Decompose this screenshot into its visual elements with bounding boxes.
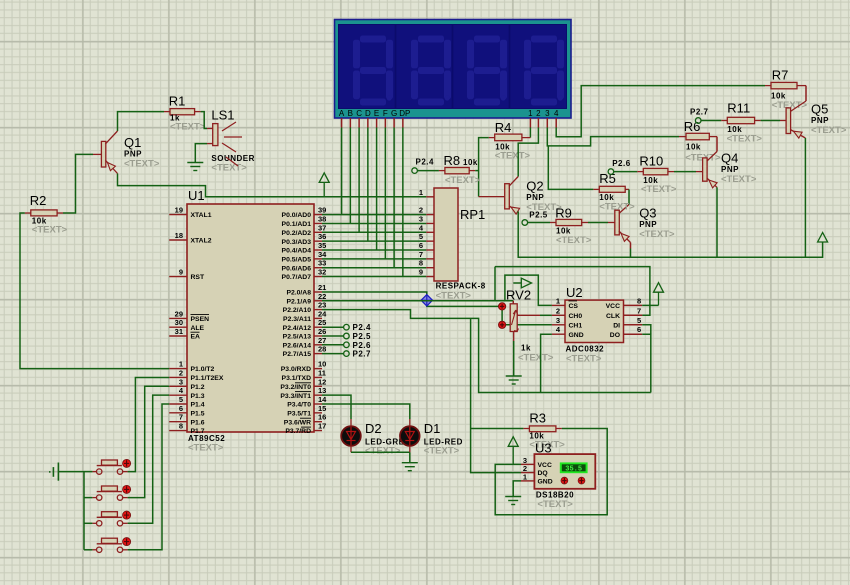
terminal circle P2.6 bbox=[608, 169, 614, 175]
wire digit1 pin to R4 bbox=[529, 128, 531, 138]
svg-text:DI: DI bbox=[613, 322, 620, 329]
wire digit4 pin to R7 bbox=[556, 86, 765, 137]
svg-text:<TEXT>: <TEXT> bbox=[599, 202, 635, 213]
svg-text:7: 7 bbox=[179, 413, 183, 422]
svg-text:XTAL2: XTAL2 bbox=[191, 238, 212, 245]
svg-text:10k: 10k bbox=[686, 143, 701, 152]
resistor R10 bbox=[639, 154, 676, 196]
svg-text:39: 39 bbox=[318, 206, 326, 215]
ground under RV2 bbox=[506, 376, 522, 384]
terminal circle P2.6 bbox=[344, 342, 350, 348]
4-digit 7-segment display DISP1 bbox=[335, 20, 572, 119]
svg-text:<TEXT>: <TEXT> bbox=[721, 174, 757, 185]
wire R1 to LS1 bbox=[195, 111, 201, 113]
wire segment D bbox=[367, 128, 369, 242]
terminal P2.7 bbox=[322, 353, 344, 355]
svg-text:P3.1/TXD: P3.1/TXD bbox=[282, 375, 312, 382]
display pins bbox=[341, 118, 343, 128]
svg-text:<TEXT>: <TEXT> bbox=[436, 291, 472, 302]
node marker (blue diamond) bbox=[421, 295, 432, 306]
svg-text:P0.6/AD6: P0.6/AD6 bbox=[282, 265, 312, 272]
resistor R6 bbox=[684, 119, 721, 164]
wire Q1 emitter to RP1 pin1 rail bbox=[118, 174, 427, 197]
svg-text:R11: R11 bbox=[727, 101, 750, 116]
wire segment E bbox=[376, 128, 378, 251]
temperature sensor U3 DS18B20 bbox=[523, 441, 595, 511]
svg-text:15: 15 bbox=[318, 404, 326, 413]
svg-text:R10: R10 bbox=[639, 154, 663, 169]
svg-text:R3: R3 bbox=[529, 411, 546, 426]
wire U1 P1.1 to button SW1 bbox=[128, 377, 170, 471]
resistor R8 bbox=[444, 153, 481, 186]
svg-text:R9: R9 bbox=[555, 206, 572, 221]
svg-text:25: 25 bbox=[318, 318, 326, 327]
svg-text:LS1: LS1 bbox=[211, 108, 234, 123]
svg-text:21: 21 bbox=[318, 283, 326, 292]
wire Q1 base to R2 bbox=[63, 154, 93, 213]
resistor R11 bbox=[727, 101, 763, 145]
svg-text:G: G bbox=[391, 109, 397, 118]
wire P3.4 to D1 bbox=[322, 404, 410, 419]
junction dot lower bbox=[499, 321, 506, 328]
ground under U3 bbox=[505, 497, 521, 505]
svg-text:5: 5 bbox=[637, 316, 641, 325]
svg-text:37: 37 bbox=[318, 223, 326, 232]
microcontroller U1 AT89C52 bbox=[169, 188, 327, 454]
svg-text:R8: R8 bbox=[444, 153, 461, 168]
svg-text:<TEXT>: <TEXT> bbox=[811, 125, 847, 136]
wire segment C bbox=[358, 128, 360, 233]
wire R9 to Q3 base bbox=[582, 222, 588, 224]
svg-text:<TEXT>: <TEXT> bbox=[495, 151, 531, 162]
svg-text:3: 3 bbox=[419, 214, 423, 223]
wire P2.1/A9 to RV2 top bbox=[322, 300, 513, 302]
power arrow on RP1 line bbox=[319, 173, 329, 197]
svg-text:P2.1/A9: P2.1/A9 bbox=[286, 298, 311, 305]
svg-text:P1.3: P1.3 bbox=[191, 393, 205, 400]
svg-text:<TEXT>: <TEXT> bbox=[124, 159, 160, 170]
push button SW4 bbox=[92, 538, 130, 553]
svg-text:<TEXT>: <TEXT> bbox=[445, 175, 481, 186]
wire RV2 bottom to ground bbox=[513, 332, 515, 342]
svg-text:10: 10 bbox=[318, 360, 326, 369]
svg-text:P1.2: P1.2 bbox=[191, 384, 205, 391]
vertical with junctions to CH1 bbox=[501, 306, 503, 324]
sounder LS1 bbox=[211, 108, 255, 174]
svg-text:10k: 10k bbox=[463, 158, 478, 167]
svg-text:5: 5 bbox=[179, 395, 183, 404]
resistor R7 bbox=[771, 68, 808, 112]
svg-text:RV2: RV2 bbox=[506, 288, 531, 303]
svg-text:P1.0/T2: P1.0/T2 bbox=[191, 366, 215, 373]
wire button SW3 left to common bbox=[84, 522, 92, 524]
wire Q3 emitter to rail bbox=[630, 243, 632, 249]
svg-text:<TEXT>: <TEXT> bbox=[32, 225, 68, 236]
svg-text:33: 33 bbox=[318, 259, 326, 268]
display digit at x=411 bbox=[418, 36, 444, 43]
svg-text:27: 27 bbox=[318, 336, 326, 345]
wire segment G bbox=[393, 128, 395, 268]
transistor Q5 PNP bbox=[786, 101, 847, 138]
svg-text:3: 3 bbox=[556, 316, 560, 325]
svg-text:6: 6 bbox=[179, 404, 183, 413]
svg-text:GND: GND bbox=[538, 479, 553, 486]
svg-text:A: A bbox=[339, 109, 345, 118]
transistor Q4 PNP bbox=[703, 151, 757, 188]
svg-text:2: 2 bbox=[419, 206, 423, 215]
svg-text:P2.6: P2.6 bbox=[353, 341, 372, 350]
wire R6 to Q4 collector bbox=[709, 136, 717, 138]
svg-text:2: 2 bbox=[536, 109, 541, 118]
svg-text:26: 26 bbox=[318, 327, 326, 336]
svg-text:R1: R1 bbox=[169, 94, 186, 109]
svg-text:8: 8 bbox=[179, 422, 183, 431]
svg-text:P1.7: P1.7 bbox=[191, 428, 205, 435]
wire R11 to Q5 base bbox=[755, 120, 761, 122]
svg-text:CLK: CLK bbox=[606, 313, 620, 320]
power arrow U2 VCC bbox=[654, 283, 664, 306]
terminal circle P2.7 bbox=[344, 351, 350, 357]
wire segment B bbox=[349, 128, 351, 224]
svg-text:Q1: Q1 bbox=[124, 135, 141, 150]
svg-text:P2.6: P2.6 bbox=[612, 159, 631, 168]
svg-text:1: 1 bbox=[179, 360, 183, 369]
transistor Q1 PNP bbox=[93, 131, 160, 174]
push button SW2 bbox=[92, 485, 130, 500]
svg-text:16: 16 bbox=[318, 413, 326, 422]
svg-text:ALE: ALE bbox=[191, 325, 205, 332]
resistor R4 bbox=[495, 120, 531, 162]
svg-text:8: 8 bbox=[419, 259, 423, 268]
svg-text:P1.4: P1.4 bbox=[191, 402, 205, 409]
svg-text:P2.5/A13: P2.5/A13 bbox=[283, 334, 312, 341]
svg-text:7: 7 bbox=[419, 250, 423, 259]
svg-text:D: D bbox=[365, 109, 371, 118]
svg-text:9: 9 bbox=[179, 268, 183, 277]
wire U2 DI to DO bbox=[642, 325, 651, 334]
svg-text:Q4: Q4 bbox=[721, 151, 738, 166]
svg-text:<TEXT>: <TEXT> bbox=[566, 354, 602, 365]
svg-text:P2.5: P2.5 bbox=[353, 332, 372, 341]
wire P3.3 to D2 bbox=[322, 395, 351, 419]
svg-text:<TEXT>: <TEXT> bbox=[424, 446, 460, 457]
svg-text:1: 1 bbox=[523, 472, 527, 481]
svg-text:1: 1 bbox=[419, 188, 423, 197]
resistor R3 bbox=[529, 411, 565, 451]
svg-text:P2.7/A15: P2.7/A15 bbox=[283, 351, 312, 358]
svg-text:U2: U2 bbox=[566, 285, 583, 300]
svg-text:Q3: Q3 bbox=[639, 206, 656, 221]
svg-text:VCC: VCC bbox=[538, 462, 552, 469]
svg-text:EA: EA bbox=[191, 334, 201, 341]
svg-text:P3.7/RD: P3.7/RD bbox=[285, 428, 311, 435]
svg-text:P0.7/AD7: P0.7/AD7 bbox=[282, 274, 312, 281]
wire segment F bbox=[384, 128, 386, 259]
rail to U2 CLK bbox=[495, 267, 650, 316]
resistor R1 bbox=[169, 94, 206, 133]
wire R8 to Q2 base line bbox=[469, 170, 475, 172]
svg-text:P2.4: P2.4 bbox=[353, 323, 372, 332]
wire P2.2/A10 net bbox=[322, 310, 651, 393]
wire P2.7 to R11 bbox=[701, 120, 721, 122]
svg-text:PSEN: PSEN bbox=[191, 316, 210, 323]
svg-text:28: 28 bbox=[318, 345, 326, 354]
wire button SW4 left to common bbox=[84, 549, 92, 551]
svg-text:2: 2 bbox=[179, 368, 183, 377]
svg-text:35: 35 bbox=[318, 241, 326, 250]
svg-text:23: 23 bbox=[318, 301, 326, 310]
svg-text:<TEXT>: <TEXT> bbox=[170, 122, 206, 133]
svg-text:3: 3 bbox=[179, 377, 183, 386]
display digit at x=353 bbox=[360, 36, 386, 43]
svg-text:P2.7: P2.7 bbox=[690, 108, 709, 117]
svg-text:XTAL1: XTAL1 bbox=[191, 212, 212, 219]
svg-text:12: 12 bbox=[318, 377, 326, 386]
svg-text:P1.5: P1.5 bbox=[191, 410, 205, 417]
svg-text:1k: 1k bbox=[521, 344, 531, 353]
svg-text:<TEXT>: <TEXT> bbox=[365, 446, 401, 457]
svg-text:<TEXT>: <TEXT> bbox=[556, 235, 592, 246]
svg-text:C: C bbox=[356, 109, 362, 118]
wire R4 to Q2 base bbox=[489, 137, 495, 139]
svg-text:RESPACK-8: RESPACK-8 bbox=[436, 282, 486, 291]
svg-text:RP1: RP1 bbox=[460, 207, 485, 222]
wire R3 right to VCC loop bbox=[556, 428, 562, 430]
wire LS1 to ground bbox=[207, 143, 213, 145]
terminal circle P2.4 bbox=[344, 324, 350, 330]
svg-text:P1.1/T2EX: P1.1/T2EX bbox=[191, 375, 224, 382]
wire DQ branch down to U3 bbox=[471, 318, 521, 472]
transistor Q3 PNP bbox=[615, 205, 675, 243]
resistor R2 bbox=[30, 193, 68, 236]
power arrow U3 VCC bbox=[508, 437, 518, 465]
svg-text:P1.6: P1.6 bbox=[191, 419, 205, 426]
resistor R9 bbox=[555, 206, 592, 247]
wire RV2 wiper to U2 CH0 bbox=[517, 314, 540, 316]
svg-text:Q2: Q2 bbox=[526, 179, 543, 194]
svg-text:4: 4 bbox=[554, 109, 559, 118]
terminal circle P2.7 bbox=[695, 118, 701, 124]
svg-text:CH1: CH1 bbox=[569, 322, 583, 329]
wire U1 P1.4 to button SW4 bbox=[128, 404, 170, 550]
svg-text:PNP: PNP bbox=[811, 116, 829, 125]
svg-text:P2.7: P2.7 bbox=[353, 350, 372, 359]
svg-text:PNP: PNP bbox=[526, 193, 544, 202]
svg-text:<TEXT>: <TEXT> bbox=[641, 184, 677, 195]
ground under D1 bbox=[402, 463, 418, 471]
svg-text:P3.6/WR: P3.6/WR bbox=[284, 419, 311, 426]
svg-text:R6: R6 bbox=[684, 119, 701, 134]
svg-text:P2.3/A11: P2.3/A11 bbox=[283, 316, 311, 323]
svg-text:PNP: PNP bbox=[124, 150, 142, 159]
terminal circle P2.5 bbox=[522, 220, 528, 226]
wire Q1 collector to R1 bbox=[118, 112, 165, 131]
svg-text:PNP: PNP bbox=[721, 165, 739, 174]
svg-text:P0.3/AD3: P0.3/AD3 bbox=[282, 239, 312, 246]
svg-text:36: 36 bbox=[318, 232, 326, 241]
power arrow right (RV2) bbox=[513, 282, 521, 284]
resistor pack RP1 RESPACK-8 bbox=[419, 188, 486, 302]
svg-text:1: 1 bbox=[556, 296, 560, 305]
ground terminal bbox=[49, 463, 58, 481]
display digit at x=467 bbox=[474, 36, 500, 43]
svg-text:P0.1/AD1: P0.1/AD1 bbox=[282, 221, 312, 228]
svg-text:6: 6 bbox=[419, 241, 423, 250]
svg-text:F: F bbox=[383, 109, 388, 118]
svg-text:P3.2/INT0: P3.2/INT0 bbox=[280, 384, 311, 391]
svg-text:P2.2/A10: P2.2/A10 bbox=[283, 307, 312, 314]
wire R2 to U1 pin1 bbox=[25, 212, 31, 214]
power arrow right bbox=[818, 233, 828, 243]
svg-text:<TEXT>: <TEXT> bbox=[188, 443, 224, 454]
svg-text:<TEXT>: <TEXT> bbox=[727, 134, 763, 145]
svg-text:17: 17 bbox=[318, 422, 326, 431]
svg-text:<TEXT>: <TEXT> bbox=[537, 499, 573, 510]
svg-text:P0.2/AD2: P0.2/AD2 bbox=[282, 230, 312, 237]
wire segment A bbox=[341, 128, 343, 215]
svg-text:D2: D2 bbox=[365, 421, 382, 436]
svg-text:P0.4/AD4: P0.4/AD4 bbox=[282, 248, 312, 255]
wire to ground under D1 bbox=[409, 452, 411, 462]
svg-text:8: 8 bbox=[637, 296, 641, 305]
svg-text:24: 24 bbox=[318, 309, 327, 318]
svg-text:35.5: 35.5 bbox=[565, 466, 582, 474]
wire U2 VCC to power arrow bbox=[642, 304, 658, 306]
wire Q2 emitter to emitter rail bbox=[518, 211, 822, 257]
wire digit3 pin to R6 bbox=[547, 128, 679, 146]
svg-text:DQ: DQ bbox=[538, 470, 548, 477]
svg-text:2: 2 bbox=[556, 306, 560, 315]
svg-text:18: 18 bbox=[175, 231, 183, 240]
svg-text:9: 9 bbox=[419, 268, 423, 277]
svg-text:CS: CS bbox=[569, 303, 579, 310]
svg-text:DP: DP bbox=[399, 109, 410, 118]
svg-text:GND: GND bbox=[569, 332, 584, 339]
wire Q5 emitter to rail bbox=[804, 138, 806, 257]
svg-text:22: 22 bbox=[318, 292, 326, 301]
svg-text:34: 34 bbox=[318, 250, 327, 259]
svg-text:U3: U3 bbox=[535, 441, 552, 456]
push button SW3 bbox=[92, 511, 130, 526]
LED D2 LED-GREEN bbox=[341, 421, 416, 457]
wire button SW1 left to common bbox=[84, 471, 92, 473]
svg-text:38: 38 bbox=[318, 214, 326, 223]
svg-text:P2.4: P2.4 bbox=[416, 158, 435, 167]
wire U1 P1.3 to button SW3 bbox=[128, 395, 170, 523]
svg-text:29: 29 bbox=[175, 309, 183, 318]
svg-text:P3.5/T1: P3.5/T1 bbox=[287, 410, 311, 417]
wire segment DP bbox=[402, 128, 404, 277]
svg-text:R4: R4 bbox=[495, 120, 512, 135]
svg-text:P3.4/T0: P3.4/T0 bbox=[287, 402, 311, 409]
wire R5 left to digit3 line bbox=[593, 188, 599, 190]
LED D1 LED-RED bbox=[400, 421, 463, 457]
svg-text:13: 13 bbox=[318, 386, 326, 395]
display digit at x=524 bbox=[531, 36, 557, 43]
wire Q3 collector to R5 bbox=[625, 188, 629, 190]
svg-text:U1: U1 bbox=[188, 188, 205, 203]
wire R3 left to DQ line bbox=[523, 428, 529, 430]
svg-text:SOUNDER: SOUNDER bbox=[211, 154, 255, 163]
wire buttons common rail bbox=[83, 472, 85, 550]
wire U2 DO down bbox=[642, 334, 651, 392]
terminal P2.6 bbox=[322, 344, 344, 346]
wire D2 cathode to D1 cathode bbox=[350, 446, 352, 453]
terminal circle P2.4 at R8 bbox=[412, 168, 418, 174]
svg-text:DO: DO bbox=[610, 332, 620, 339]
svg-text:E: E bbox=[374, 109, 379, 118]
ground under LS1 bbox=[187, 163, 203, 171]
wire R7 to Q5 collector bbox=[797, 85, 806, 87]
svg-text:32: 32 bbox=[318, 268, 326, 277]
wire P2.4 to R8 bbox=[417, 170, 439, 172]
svg-text:1: 1 bbox=[528, 109, 533, 118]
wire R10 to Q4 base bbox=[668, 171, 674, 173]
svg-text:5: 5 bbox=[419, 232, 423, 241]
svg-text:CH0: CH0 bbox=[569, 313, 583, 320]
svg-text:Q5: Q5 bbox=[811, 102, 828, 117]
wire P2.0/A8 to junction dots bbox=[322, 292, 502, 306]
svg-text:PNP: PNP bbox=[639, 220, 657, 229]
svg-text:R7: R7 bbox=[772, 68, 789, 83]
svg-text:P2.6/A14: P2.6/A14 bbox=[283, 342, 312, 349]
svg-text:P2.4/A12: P2.4/A12 bbox=[283, 325, 312, 332]
svg-text:B: B bbox=[348, 109, 353, 118]
potentiometer RV2 bbox=[506, 288, 554, 364]
terminal circle P2.5 bbox=[344, 333, 350, 339]
terminal P2.4 bbox=[322, 326, 344, 328]
wire Q4 emitter to rail bbox=[716, 187, 718, 257]
wire digit2 pin to Q2 collector bbox=[518, 128, 538, 177]
svg-text:14: 14 bbox=[318, 395, 327, 404]
wire U1 P1.2 to button SW2 bbox=[128, 386, 170, 497]
wire rail drop bbox=[494, 267, 496, 301]
svg-text:<TEXT>: <TEXT> bbox=[639, 229, 675, 240]
svg-text:30: 30 bbox=[175, 318, 183, 327]
wire button SW2 left to common bbox=[84, 497, 92, 499]
svg-text:3: 3 bbox=[545, 109, 550, 118]
svg-text:P3.0/RXD: P3.0/RXD bbox=[281, 366, 311, 373]
svg-text:31: 31 bbox=[175, 327, 183, 336]
svg-text:D1: D1 bbox=[424, 421, 441, 436]
wire P2.5 to R9 bbox=[528, 222, 550, 224]
resistor R5 bbox=[599, 171, 635, 213]
ADC U2 ADC0832 bbox=[556, 285, 642, 365]
transistor Q2 PNP bbox=[505, 177, 562, 215]
wire U3 GND to ground bbox=[521, 480, 534, 482]
svg-text:R2: R2 bbox=[30, 193, 47, 208]
svg-text:RST: RST bbox=[191, 274, 205, 281]
svg-text:P0.5/AD5: P0.5/AD5 bbox=[282, 256, 312, 263]
svg-text:11: 11 bbox=[318, 368, 326, 377]
terminal P2.5 bbox=[322, 335, 344, 337]
wire rail detour to U2 CS bbox=[505, 275, 552, 305]
junction dot upper bbox=[499, 303, 506, 310]
svg-text:P3.3/INT1: P3.3/INT1 bbox=[280, 393, 311, 400]
svg-text:<TEXT>: <TEXT> bbox=[211, 163, 247, 174]
svg-text:P0.0/AD0: P0.0/AD0 bbox=[282, 212, 312, 219]
wire RV2 top to P2.1 line bbox=[512, 301, 514, 304]
svg-text:6: 6 bbox=[637, 325, 641, 334]
svg-text:P2.0/A8: P2.0/A8 bbox=[286, 290, 311, 297]
wire U2 GND down bbox=[541, 334, 552, 392]
wire P2.6 to R10 bbox=[614, 171, 638, 173]
svg-text:7: 7 bbox=[637, 306, 641, 315]
svg-text:<TEXT>: <TEXT> bbox=[518, 353, 554, 364]
svg-text:P2.5: P2.5 bbox=[529, 211, 548, 220]
svg-text:ADC0832: ADC0832 bbox=[566, 345, 605, 354]
svg-text:VCC: VCC bbox=[606, 303, 620, 310]
